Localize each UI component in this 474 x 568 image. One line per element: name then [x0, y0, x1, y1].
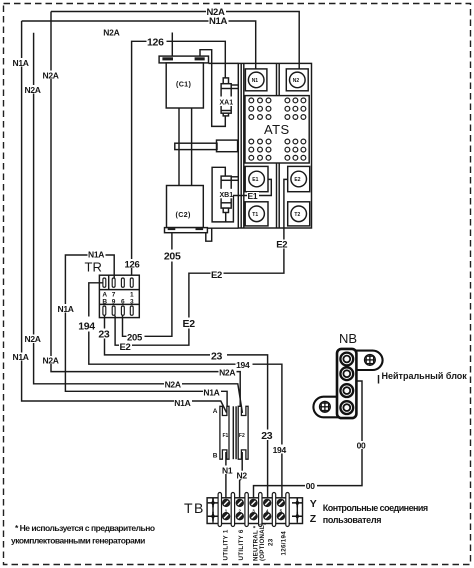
- svg-text:B: B: [213, 453, 218, 460]
- wire N2A left drop to fuse F2 pin A: [51, 12, 240, 414]
- wire label 205 at TR: [127, 333, 145, 344]
- svg-text:3: 3: [130, 299, 134, 306]
- svg-text:XA1: XA1: [220, 100, 234, 107]
- svg-text:N1A: N1A: [203, 388, 219, 398]
- svg-text:(C2): (C2): [176, 210, 191, 219]
- TB screw terminals: [222, 499, 285, 521]
- svg-text:N2A: N2A: [43, 70, 59, 80]
- wire label 00 on vertical: [356, 440, 368, 450]
- capacitor C1: [159, 56, 208, 108]
- TB column label NEUTRAL (OPTIONAL): [253, 523, 266, 561]
- TB column label UTILITY 1: [223, 529, 230, 560]
- wire 23 from TR pin B to TB terminal 4: [105, 316, 268, 498]
- wire label 126 top: [147, 36, 167, 48]
- svg-text:E2: E2: [211, 270, 222, 281]
- svg-text:23: 23: [268, 538, 275, 546]
- svg-text:N2A: N2A: [25, 334, 41, 344]
- wire label 23 at TR: [98, 329, 111, 341]
- wire N2 fuse F2 to TB terminal 2: [240, 452, 243, 498]
- fuse holder XB1: [219, 176, 238, 212]
- label TR: [85, 260, 102, 275]
- svg-text:N1A: N1A: [209, 16, 228, 27]
- label TB: [184, 500, 205, 516]
- svg-text:N1A: N1A: [174, 398, 190, 408]
- wire N1A top run to ATS N1: [22, 21, 256, 72]
- wire 126 from TR pin 1 to fuse XA1: [132, 41, 226, 275]
- svg-text:E1: E1: [252, 177, 258, 183]
- wire label 23 mid: [210, 350, 227, 363]
- svg-text:Контрольные соединения: Контрольные соединения: [323, 503, 428, 513]
- svg-text:E2: E2: [183, 318, 196, 330]
- wire label 194 mid: [236, 360, 253, 370]
- wire label E2 lower: [182, 318, 195, 331]
- svg-text:A: A: [102, 292, 107, 299]
- wire C1 cap to ATS top: [209, 62, 239, 64]
- wire label N1: [222, 465, 234, 475]
- wire label N2A left upper: [42, 70, 60, 80]
- wire label N1A left upper: [13, 58, 30, 68]
- wire label N2A mid2: [164, 380, 182, 390]
- svg-text:23: 23: [261, 430, 273, 442]
- ATS terminal E1: [245, 166, 268, 191]
- svg-text:N2: N2: [237, 471, 248, 481]
- wiring harness bar to ATS: [175, 140, 238, 152]
- svg-text:N2A: N2A: [165, 380, 181, 390]
- transformer block TR: [99, 275, 139, 317]
- label Нейтральный блок: [382, 371, 468, 381]
- wire label 194 left: [78, 317, 95, 333]
- svg-text:T2: T2: [294, 212, 300, 218]
- TB column label 23: [268, 538, 275, 546]
- wire label N2A floating top-center: [103, 27, 119, 37]
- wire XB1 bottom stem: [225, 213, 227, 222]
- wire label N2: [236, 471, 248, 481]
- TB column label 126/194: [281, 531, 288, 556]
- wire label E1: [247, 191, 259, 201]
- label Контрольные соединения пользователя: [323, 503, 428, 525]
- svg-text:UTILITY 1: UTILITY 1: [223, 529, 230, 560]
- wire 205 from TR pin 6 to C2: [123, 233, 172, 337]
- svg-text:23: 23: [211, 350, 223, 362]
- svg-text:(OPTIONAL): (OPTIONAL): [259, 523, 266, 561]
- fuse block F1 F2: [213, 406, 248, 459]
- svg-text:N2A: N2A: [43, 355, 59, 365]
- svg-text:F1: F1: [223, 433, 229, 439]
- svg-text:NB: NB: [339, 331, 357, 346]
- wire C1 cap to XA1 bottom: [200, 50, 225, 127]
- wire label N1A top: [209, 16, 229, 27]
- ATS terminal T1: [245, 202, 268, 226]
- svg-text:* Не используется с предварите: * Не используется с предварительно: [15, 523, 155, 533]
- ATS outer box: [238, 63, 311, 228]
- svg-text:00: 00: [306, 481, 315, 491]
- wire label 23 at fuse: [261, 430, 274, 443]
- wire label N2A top: [206, 7, 226, 18]
- svg-text:TR: TR: [85, 260, 102, 275]
- svg-text:194: 194: [78, 321, 95, 333]
- wire label N1A mid: [58, 304, 74, 314]
- wire label 00 on horizontal: [305, 481, 317, 491]
- svg-text:F2: F2: [239, 433, 245, 439]
- svg-text:(C1): (C1): [176, 79, 191, 88]
- wire N1A from TR pin 7 to fuse F1: [65, 255, 227, 413]
- svg-text:E2: E2: [276, 240, 287, 251]
- wire label 194 at fuse: [272, 445, 288, 455]
- wire N2A top run to ATS N2: [51, 12, 299, 73]
- fuse holder XA1: [219, 78, 238, 116]
- svg-text:E2: E2: [294, 177, 300, 183]
- wire label E2 mid: [211, 270, 224, 281]
- svg-text:126: 126: [147, 36, 164, 48]
- wire label N1A mid2: [203, 388, 221, 398]
- ATS center grid block: [245, 96, 309, 163]
- svg-text:XB1: XB1: [220, 192, 234, 199]
- neutral block NB: [313, 349, 382, 418]
- svg-text:126: 126: [125, 259, 140, 270]
- wire label 205 at C2: [163, 250, 181, 263]
- svg-text:9: 9: [112, 299, 116, 306]
- wire 126 stub at C1: [171, 33, 173, 57]
- svg-text:N1A: N1A: [58, 304, 74, 314]
- label NB: [339, 331, 357, 346]
- svg-text:ATS: ATS: [264, 122, 290, 137]
- wire label E2 at TR: [119, 342, 132, 353]
- svg-text:Y: Y: [310, 498, 317, 510]
- svg-text:N1: N1: [222, 465, 233, 475]
- svg-text:A: A: [213, 408, 218, 415]
- wire N2A stub drop to fuse F2: [34, 33, 243, 413]
- svg-text:N2A: N2A: [219, 368, 235, 378]
- footnote: [11, 523, 155, 546]
- svg-text:6: 6: [121, 299, 125, 306]
- svg-text:126/194: 126/194: [281, 531, 288, 556]
- wire C1 to C2 right lead: [191, 108, 193, 186]
- svg-text:Z: Z: [310, 513, 317, 525]
- svg-text:194: 194: [273, 445, 287, 455]
- wire C2 cap notch: [206, 228, 212, 241]
- svg-text:укомплектованными генераторами: укомплектованными генераторами: [11, 536, 145, 546]
- svg-text:N2: N2: [293, 78, 300, 84]
- ATS terminal T2: [288, 202, 310, 226]
- wire label N1A left lower: [13, 352, 30, 362]
- label Z: [310, 513, 317, 525]
- label Y: [310, 498, 317, 510]
- svg-text:194: 194: [236, 360, 250, 370]
- svg-text:Нейтральный блок: Нейтральный блок: [382, 371, 468, 381]
- wire label E2 below ATS: [276, 240, 289, 251]
- TB divider bars: [218, 493, 289, 527]
- wire label 126 at TR: [124, 259, 139, 270]
- svg-text:205: 205: [127, 333, 143, 344]
- wire 00 from NB to TB terminal 3: [254, 381, 363, 498]
- wire C2 cap to ATS bottom: [207, 227, 238, 229]
- svg-text:N1A: N1A: [13, 352, 29, 362]
- wire label N1A lower: [174, 398, 192, 408]
- wire C1 to C2 left lead: [178, 108, 180, 186]
- leader line neutral block: [378, 375, 380, 384]
- svg-text:N1: N1: [252, 78, 259, 84]
- terminal strip TB: [207, 498, 302, 524]
- wire E2 from ATS E2 to TR pin 9: [115, 179, 288, 345]
- wire N1A left drop to fuse F1 pin A: [22, 21, 227, 413]
- ATS terminal E2: [288, 166, 310, 191]
- ATS terminal N2: [286, 69, 308, 91]
- svg-text:пользователя: пользователя: [323, 515, 381, 525]
- svg-text:N1A: N1A: [88, 250, 104, 260]
- wire E1 loop from ATS E1 to XB1: [212, 167, 271, 222]
- svg-text:B: B: [102, 299, 107, 306]
- wire N1 fuse F1 to TB terminal 1: [225, 452, 227, 498]
- wire label N1A on TR wire: [88, 250, 106, 260]
- wire label N2A mid: [219, 368, 237, 378]
- svg-text:205: 205: [164, 251, 181, 263]
- wire label N2A left upper2: [24, 85, 42, 95]
- svg-text:N2A: N2A: [25, 85, 41, 95]
- wire label N2A left lower: [24, 334, 42, 344]
- svg-text:1: 1: [130, 292, 134, 299]
- svg-text:E1: E1: [248, 191, 258, 201]
- wire label N2A left lower2: [43, 355, 60, 365]
- TB column label UTILITY 6: [238, 529, 245, 560]
- svg-text:UTILITY 6: UTILITY 6: [238, 529, 245, 560]
- svg-text:7: 7: [112, 292, 116, 299]
- svg-text:23: 23: [98, 329, 110, 341]
- svg-text:N2A: N2A: [103, 27, 119, 37]
- svg-text:T1: T1: [252, 212, 258, 218]
- wire 194 from TR pin A to TB terminal 5: [89, 283, 282, 498]
- svg-text:TB: TB: [184, 500, 205, 516]
- ATS terminal N1: [245, 69, 267, 91]
- svg-text:N1A: N1A: [13, 58, 29, 68]
- capacitor C2: [165, 186, 208, 233]
- svg-text:00: 00: [357, 440, 366, 450]
